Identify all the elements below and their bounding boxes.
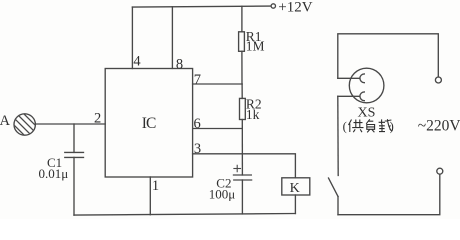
capacitor C1 bottom plate: [65, 156, 84, 158]
svg-text:K: K: [290, 181, 300, 196]
capacitor C2 top plate: [234, 174, 252, 176]
label (供负载): [343, 119, 394, 133]
svg-text:1: 1: [152, 178, 159, 194]
wire R2 top lead: [241, 84, 243, 98]
svg-text:100μ: 100μ: [209, 187, 236, 202]
socket XS upper contact: [360, 74, 364, 83]
wire bottom rail: [74, 214, 295, 216]
electrode A circle: [14, 114, 35, 135]
wire IC pin 6 to R2 bottom node: [193, 128, 243, 130]
terminal +12V: [271, 4, 275, 8]
socket XS upper lead: [338, 77, 360, 79]
hanzi 供: [349, 120, 364, 133]
resistor R2 body: [240, 98, 246, 119]
wire relay K to bottom rail: [294, 195, 296, 214]
svg-text:8: 8: [176, 56, 183, 72]
wire top +12V rail: [132, 6, 270, 7]
capacitor C2 polarity plus: [234, 165, 241, 171]
electrode A hatch lines: [8, 100, 38, 156]
terminal plug pin top: [435, 77, 441, 83]
svg-text:1k: 1k: [246, 107, 260, 122]
wire R1 bottom lead to pin7 node: [241, 51, 243, 84]
socket XS circle: [349, 68, 384, 103]
wire socket lower contact to switch: [337, 96, 339, 175]
svg-text:+12V: +12V: [278, 0, 312, 15]
capacitor C2 bottom plate: [234, 179, 252, 181]
relay K body: [282, 178, 310, 195]
wire R2 bottom lead down to capacitor C2: [241, 120, 243, 176]
wire IC pin 3 to relay K: [193, 154, 296, 178]
svg-text:(: (: [343, 120, 347, 134]
wire electrode A to IC pin 2: [35, 123, 105, 125]
svg-text:~220V: ~220V: [418, 118, 460, 135]
svg-text:7: 7: [194, 72, 201, 88]
svg-text:4: 4: [133, 53, 141, 69]
hanzi 载: [379, 119, 392, 131]
svg-text:IC: IC: [142, 115, 156, 132]
switch S blade: [329, 178, 339, 197]
svg-text:0.01μ: 0.01μ: [39, 166, 69, 181]
svg-text:6: 6: [194, 116, 201, 132]
wire IC pin 4 to top rail: [131, 7, 133, 68]
wire IC pin 1 to bottom rail: [149, 177, 151, 215]
resistor R1 body: [239, 32, 245, 52]
socket XS lower lead: [338, 95, 360, 97]
wire R1 top lead: [241, 6, 243, 32]
wire C1 top lead: [73, 124, 75, 152]
svg-text:A: A: [0, 113, 11, 129]
op-amp IC U1 body: [105, 69, 192, 178]
wire mains bottom rail: [338, 174, 440, 214]
terminal plug pin bottom: [437, 168, 443, 174]
wire C2 bottom lead to rail: [241, 180, 243, 214]
capacitor C1 top plate: [65, 151, 84, 153]
wire IC pin 7 to R1/R2 node: [193, 83, 242, 85]
wire switch to mains bottom rail: [337, 197, 339, 215]
hanzi 负: [366, 119, 374, 132]
wire mains top loop: [338, 34, 439, 79]
svg-text:XS: XS: [358, 106, 376, 121]
svg-text:3: 3: [194, 141, 201, 157]
svg-text:): ): [390, 120, 394, 134]
wire IC pin 8 to top rail: [171, 7, 173, 69]
svg-text:1M: 1M: [246, 39, 265, 54]
svg-text:2: 2: [94, 111, 101, 127]
socket XS lower contact: [360, 92, 364, 101]
wire C1 bottom lead to bottom rail: [73, 157, 75, 215]
